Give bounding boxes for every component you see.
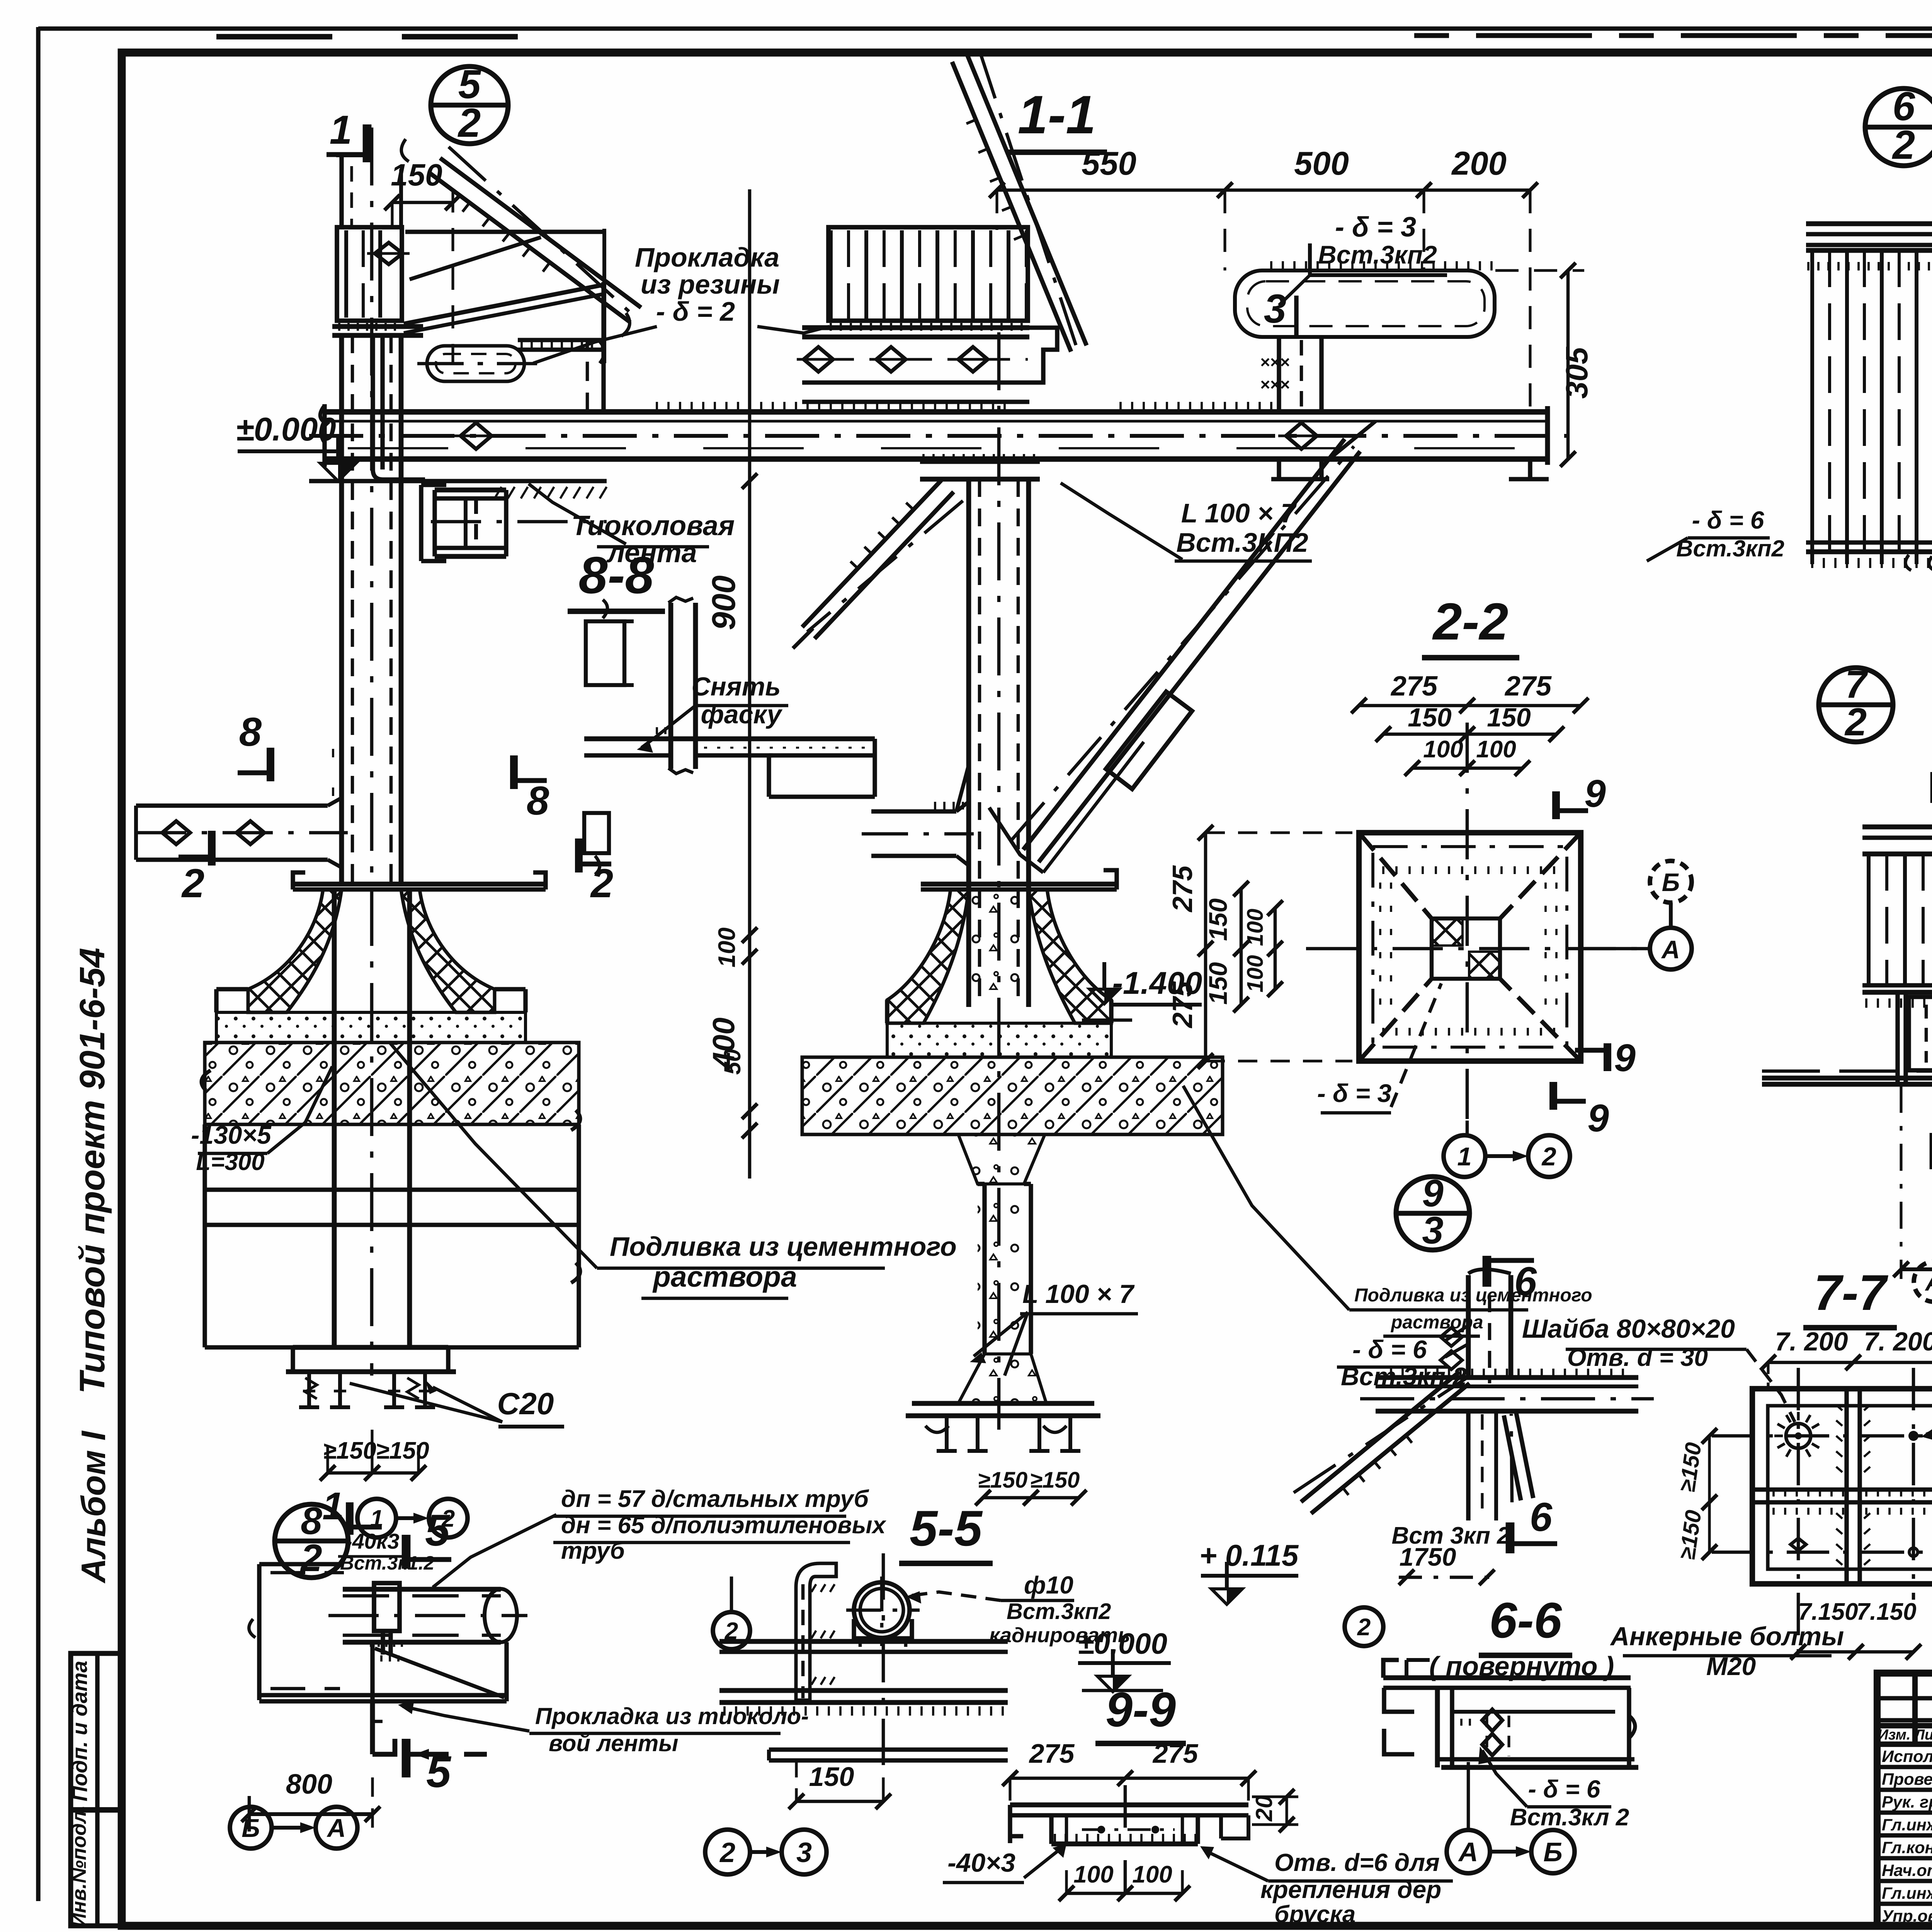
svg-text:100: 100 — [1132, 1861, 1172, 1888]
svg-text:5-5: 5-5 — [910, 1500, 983, 1556]
svg-text:- δ = 6: - δ = 6 — [1352, 1335, 1427, 1364]
svg-text:7.150: 7.150 — [1856, 1599, 1916, 1625]
svg-text:7.150: 7.150 — [1798, 1599, 1858, 1625]
svg-text:раствора: раствора — [652, 1260, 797, 1293]
svg-text:150: 150 — [1204, 898, 1232, 941]
svg-text:Подп. и дата: Подп. и дата — [68, 1661, 92, 1801]
svg-text:Прокладка: Прокладка — [635, 242, 779, 272]
svg-text:А: А — [1661, 935, 1680, 964]
svg-text:Анкерные болты: Анкерные болты — [1610, 1622, 1844, 1651]
svg-text:Шайба 80×80×20: Шайба 80×80×20 — [1522, 1314, 1735, 1344]
svg-text:- δ = 3: - δ = 3 — [1335, 212, 1416, 243]
svg-text:1: 1 — [370, 1505, 383, 1532]
svg-text:2: 2 — [1541, 1142, 1556, 1171]
svg-text:6: 6 — [1530, 1495, 1553, 1540]
svg-text:из резины: из резины — [641, 269, 780, 299]
svg-text:Изм.: Изм. — [1878, 1727, 1911, 1743]
svg-text:1-1: 1-1 — [1018, 84, 1096, 145]
svg-text:2: 2 — [1892, 122, 1915, 168]
svg-text:Вст.3кп2: Вст.3кп2 — [1007, 1599, 1111, 1624]
svg-text:Инв.№подл.: Инв.№подл. — [68, 1805, 90, 1928]
svg-text:2: 2 — [181, 861, 204, 906]
svg-text:Б: Б — [1662, 868, 1680, 896]
svg-text:C20: C20 — [497, 1386, 554, 1421]
svg-text:-40к3: -40к3 — [345, 1529, 399, 1553]
svg-text:Альбом I: Альбом I — [74, 1430, 112, 1583]
svg-text:≥150: ≥150 — [978, 1468, 1028, 1493]
svg-text:-40×3: -40×3 — [947, 1848, 1015, 1878]
svg-text:Отв. d=6 для: Отв. d=6 для — [1274, 1849, 1440, 1876]
svg-text:275: 275 — [1167, 865, 1198, 913]
svg-text:Лист: Лист — [1913, 1727, 1932, 1743]
svg-text:Исполн.: Исполн. — [1882, 1747, 1932, 1766]
svg-text:- δ = 2: - δ = 2 — [656, 296, 735, 327]
svg-text:Подливка из цементного: Подливка из цементного — [610, 1231, 957, 1262]
svg-text:9: 9 — [1614, 1036, 1636, 1080]
svg-text:150: 150 — [1408, 703, 1452, 732]
svg-text:200: 200 — [1451, 145, 1507, 182]
svg-text:-130×5: -130×5 — [191, 1121, 272, 1149]
svg-text:100: 100 — [1073, 1861, 1113, 1888]
svg-text:8: 8 — [301, 1500, 322, 1543]
svg-text:А: А — [327, 1814, 346, 1843]
svg-text:2: 2 — [457, 100, 481, 146]
svg-text:≥150: ≥150 — [376, 1437, 429, 1464]
svg-text:Гл.инж.отд.: Гл.инж.отд. — [1882, 1884, 1932, 1903]
svg-text:3: 3 — [796, 1837, 812, 1868]
svg-text:275: 275 — [1504, 671, 1552, 702]
svg-text:100: 100 — [1243, 955, 1268, 993]
svg-text:150: 150 — [1204, 962, 1232, 1005]
svg-text:1: 1 — [1457, 1142, 1471, 1171]
svg-text:6: 6 — [1514, 1259, 1537, 1304]
svg-text:≥150: ≥150 — [323, 1437, 376, 1464]
svg-text:2: 2 — [719, 1837, 735, 1868]
svg-text:8: 8 — [239, 709, 262, 755]
svg-text:Снять: Снять — [691, 672, 781, 701]
svg-text:5: 5 — [426, 1747, 452, 1797]
svg-text:А: А — [1458, 1837, 1478, 1867]
svg-text:20: 20 — [1251, 1796, 1277, 1822]
svg-text:Гл.инж.пр.: Гл.инж.пр. — [1882, 1816, 1932, 1834]
svg-text:2: 2 — [1357, 1614, 1371, 1641]
svg-text:100: 100 — [1423, 736, 1463, 763]
svg-text:7-7: 7-7 — [1814, 1264, 1889, 1321]
svg-text:бруска: бруска — [1274, 1901, 1355, 1928]
svg-text:дп = 57 д/стальных труб: дп = 57 д/стальных труб — [561, 1486, 869, 1512]
svg-text:А: А — [1925, 1269, 1932, 1296]
svg-text:7: 7 — [1845, 663, 1868, 706]
svg-text:100: 100 — [714, 927, 740, 967]
svg-text:9: 9 — [1584, 772, 1606, 815]
svg-text:9: 9 — [1422, 1172, 1444, 1215]
svg-text:Гл.констр.: Гл.констр. — [1882, 1838, 1932, 1857]
svg-text:8-8: 8-8 — [578, 546, 654, 604]
svg-text:2: 2 — [590, 861, 613, 906]
svg-text:Упр.овл: Упр.овл — [1882, 1907, 1932, 1925]
svg-text:305: 305 — [1560, 347, 1594, 399]
svg-text:3: 3 — [1264, 286, 1286, 332]
svg-text:Вст.3кп2: Вст.3кп2 — [1318, 240, 1437, 269]
svg-text:800: 800 — [286, 1769, 332, 1800]
svg-text:100: 100 — [1476, 736, 1516, 763]
svg-text:150: 150 — [1487, 703, 1531, 732]
svg-text:- δ = 3: - δ = 3 — [1317, 1079, 1392, 1107]
svg-text:×××: ××× — [1260, 353, 1290, 372]
svg-text:50: 50 — [719, 1049, 745, 1075]
svg-text:×××: ××× — [1260, 375, 1290, 394]
svg-text:Типовой проект 901-6-54: Типовой проект 901-6-54 — [73, 948, 112, 1394]
svg-text:±0.000: ±0.000 — [236, 411, 336, 448]
svg-text:275: 275 — [1390, 671, 1438, 702]
svg-text:100: 100 — [1243, 909, 1268, 946]
svg-text:9-9: 9-9 — [1105, 1682, 1176, 1737]
svg-text:2-2: 2-2 — [1432, 592, 1508, 651]
svg-text:- δ = 6: - δ = 6 — [1692, 506, 1764, 534]
svg-text:Прокладка из тиоколо-: Прокладка из тиоколо- — [535, 1703, 809, 1729]
svg-text:Провер.: Провер. — [1882, 1770, 1932, 1789]
svg-text:Подливка из цементного: Подливка из цементного — [1354, 1285, 1592, 1306]
svg-text:9: 9 — [1587, 1097, 1609, 1140]
svg-text:Б: Б — [241, 1814, 260, 1843]
svg-text:275: 275 — [1167, 981, 1198, 1029]
svg-text:±0.000: ±0.000 — [1078, 1628, 1167, 1660]
svg-text:900: 900 — [706, 575, 742, 630]
svg-text:7. 200: 7. 200 — [1775, 1327, 1848, 1356]
svg-text:Нач.отд.: Нач.отд. — [1882, 1861, 1932, 1880]
svg-text:+ 0.115: + 0.115 — [1199, 1538, 1299, 1572]
svg-text:500: 500 — [1294, 145, 1349, 182]
svg-text:7. 200: 7. 200 — [1864, 1327, 1932, 1356]
svg-text:150: 150 — [809, 1762, 854, 1792]
svg-text:3: 3 — [1422, 1209, 1443, 1252]
svg-text:ф10: ф10 — [1024, 1571, 1073, 1599]
svg-text:1: 1 — [330, 107, 352, 153]
svg-text:L 100 × 7: L 100 × 7 — [1022, 1279, 1135, 1309]
svg-text:Рук. гр.: Рук. гр. — [1882, 1793, 1932, 1811]
svg-text:275: 275 — [1152, 1738, 1199, 1769]
svg-text:6-6: 6-6 — [1489, 1592, 1562, 1648]
svg-text:2: 2 — [1844, 701, 1867, 744]
svg-text:8: 8 — [527, 778, 549, 823]
svg-text:- δ = 6: - δ = 6 — [1528, 1775, 1600, 1803]
svg-text:275: 275 — [1029, 1738, 1075, 1769]
svg-text:Б: Б — [1543, 1837, 1563, 1867]
svg-text:5: 5 — [425, 1506, 451, 1555]
svg-text:1750: 1750 — [1400, 1543, 1456, 1571]
